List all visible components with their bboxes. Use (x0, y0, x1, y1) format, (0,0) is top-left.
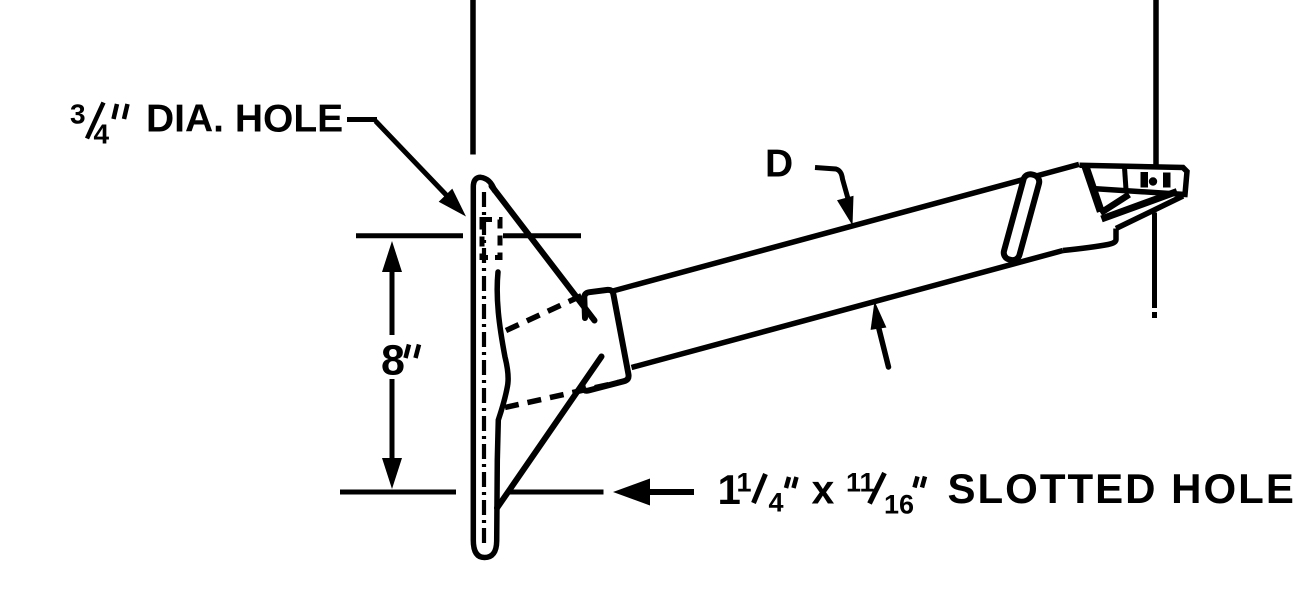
svg-text:11: 11 (846, 468, 875, 498)
svg-text:D: D (765, 142, 793, 185)
svg-text:x: x (812, 467, 835, 513)
gusset bottom edge (497, 357, 602, 509)
inch marks 1 1/4 (786, 477, 789, 488)
bar divider (1125, 168, 1127, 190)
dimension line bottom right segment (507, 490, 604, 495)
pipe arm top line (611, 164, 1079, 291)
right post line top (1153, 0, 1159, 167)
slotted hole arrowhead (613, 479, 650, 506)
leader arrowhead (439, 189, 466, 217)
svg-text:1: 1 (737, 468, 752, 498)
bar bolt dot (1149, 177, 1157, 185)
8in dim arrow up (382, 241, 402, 272)
svg-text:8: 8 (381, 337, 405, 385)
svg-text:3: 3 (70, 99, 86, 130)
gusset strut (1102, 192, 1178, 220)
leader for dia hole (347, 117, 377, 122)
D leader arrowhead (837, 196, 854, 226)
3/4 dia hole (hidden, dashed square) (482, 220, 500, 258)
8in inch marks (406, 345, 410, 359)
fraction slash 1/4 (754, 474, 766, 503)
pipe arm bottom line (632, 251, 1064, 368)
svg-text:SLOTTED HOLE: SLOTTED HOLE (948, 465, 1296, 512)
svg-text:DIA. HOLE: DIA. HOLE (146, 98, 343, 141)
inch marks 11/16 (915, 477, 918, 488)
svg-text:16: 16 (884, 490, 914, 520)
inch marks 3/4 (114, 104, 118, 119)
bar bolt blocks (1141, 172, 1149, 188)
dimension line top (356, 233, 463, 238)
D leader (815, 168, 850, 205)
dimension line top right segment (503, 233, 581, 238)
fraction slash 11/16 (870, 473, 885, 504)
bracket plate outline (473, 177, 508, 557)
pipe end face (1086, 167, 1101, 212)
right post line bottom (1152, 213, 1157, 309)
slotted hole arrow (648, 489, 694, 495)
hidden pipe bottom dashed line (505, 381, 625, 408)
hidden pipe top dashed line (506, 296, 582, 331)
collar ring on pipe (1002, 173, 1041, 262)
dimension line bottom (340, 490, 456, 495)
lower pipe arrow (878, 325, 889, 367)
lower pipe arrowhead (871, 301, 887, 330)
fraction slash 3/4 (87, 103, 104, 139)
right post line dot (1152, 312, 1157, 318)
gusset hypotenuse (1101, 195, 1130, 214)
svg-text:4: 4 (94, 119, 110, 150)
8in dim arrow down (390, 379, 395, 459)
leader diagonal (376, 121, 453, 201)
gusset top edge (492, 186, 595, 321)
plate dash-dot centerline (482, 192, 486, 545)
8in dim stem upper (390, 269, 395, 335)
end bar on post (1080, 165, 1188, 194)
svg-text:4: 4 (769, 488, 784, 518)
elbow lower strut to post (1116, 196, 1183, 229)
saddle clamp outline (583, 290, 629, 391)
elbow underside and chin (1063, 229, 1116, 251)
left pole centerline top (470, 0, 476, 155)
